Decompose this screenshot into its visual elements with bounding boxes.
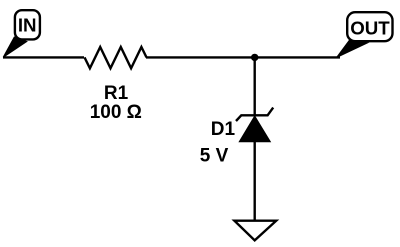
svg-text:R1: R1 — [104, 83, 129, 104]
wire — [146, 56, 340, 58]
svg-text:5 V: 5 V — [200, 145, 229, 166]
svg-text:IN: IN — [18, 15, 37, 36]
wire — [3, 56, 84, 58]
svg-text:OUT: OUT — [350, 17, 390, 38]
ground — [234, 221, 276, 241]
OUT label — [337, 12, 393, 57]
zener diode D1 — [236, 108, 273, 142]
IN label — [3, 10, 40, 57]
wire — [253, 141, 255, 221]
svg-text:D1: D1 — [211, 119, 236, 140]
node junction — [251, 54, 258, 61]
resistor R1 — [85, 47, 147, 68]
wire — [253, 57, 255, 116]
svg-text:100 Ω: 100 Ω — [90, 102, 142, 123]
